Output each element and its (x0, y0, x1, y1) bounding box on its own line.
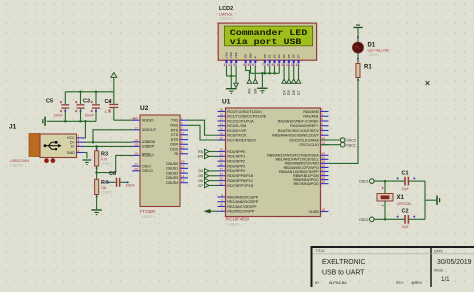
svg-text:VUSB: VUSB (309, 210, 320, 214)
wire OSC2 to C2 (374, 218, 404, 220)
svg-text:15: 15 (134, 143, 138, 147)
svg-text:RA1/AN1: RA1/AN1 (303, 115, 318, 119)
svg-text:C2: C2 (402, 209, 409, 215)
wire D- to USBDP (84, 145, 132, 147)
svg-text:<TEXT>: <TEXT> (368, 53, 380, 57)
svg-text:RD6/SPP6/P1C: RD6/SPP6/P1C (227, 179, 253, 183)
svg-text:D6: D6 (292, 54, 296, 58)
svg-text:3: 3 (78, 143, 80, 147)
svg-text:RESET: RESET (142, 154, 155, 158)
LCD LCD2 screen (224, 26, 312, 46)
wire VSS/VDD/VEE bus (226, 66, 228, 76)
svg-text:RD5/SPP5/P1B: RD5/SPP5/P1B (227, 174, 253, 178)
wire rail to ground (425, 199, 436, 201)
svg-text:EN: EN (254, 88, 258, 93)
svg-text:23: 23 (181, 160, 185, 164)
svg-text:RC1/T1OSI/CCP2/UOE: RC1/T1OSI/CCP2/UOE (227, 115, 266, 119)
ground terminal left of caps (44, 117, 46, 126)
node OSC1 terminal at U1 (321, 144, 341, 146)
svg-text:U1: U1 (222, 99, 231, 106)
svg-text:3V3OUT: 3V3OUT (142, 128, 157, 132)
svg-text:C1: C1 (402, 170, 409, 176)
svg-text:1/1: 1/1 (441, 276, 450, 283)
svg-text:RD2/SPP2: RD2/SPP2 (227, 160, 245, 164)
svg-text:RA4/T0CKI/C1OUT/RCV: RA4/T0CKI/C1OUT/RCV (278, 129, 320, 133)
wire 3V3OUT jog (93, 130, 132, 142)
svg-text:21: 21 (219, 158, 223, 162)
svg-text:23: 23 (219, 122, 223, 126)
svg-text:GND: GND (67, 151, 76, 155)
svg-text:RXD: RXD (170, 124, 178, 128)
USB trident symbol (45, 142, 60, 149)
svg-text:15: 15 (219, 108, 223, 112)
svg-text:5: 5 (181, 122, 183, 126)
wire D1 to R1 (357, 53, 359, 64)
svg-text:<TEXT>: <TEXT> (141, 215, 156, 219)
svg-text:8: 8 (221, 194, 223, 198)
svg-text:20: 20 (219, 153, 223, 157)
U1 left pins RE0-RE3 (218, 196, 226, 198)
U1 left pins RC0-RC7 (218, 111, 226, 113)
capacitor C3 (80, 92, 82, 104)
svg-text:RA0/AN0: RA0/AN0 (303, 110, 318, 114)
svg-text:U2: U2 (140, 105, 149, 112)
no-connect marker (426, 81, 430, 85)
svg-text:D1: D1 (268, 54, 272, 58)
svg-text:OSC1: OSC1 (346, 143, 356, 147)
svg-text:DATE: DATE (434, 250, 444, 254)
wire R3-R4 midpoint (96, 166, 98, 179)
svg-text:CBUS4: CBUS4 (166, 181, 178, 185)
svg-text:PAGE: PAGE (434, 268, 444, 272)
svg-text:OSC2: OSC2 (359, 218, 369, 222)
svg-text:27: 27 (219, 167, 223, 171)
svg-text:16: 16 (219, 113, 223, 117)
svg-text:RC2/CCP1/P1A: RC2/CCP1/P1A (227, 119, 254, 123)
svg-text:PIC18F4550: PIC18F4550 (226, 217, 250, 222)
U2 left pins (132, 119, 140, 121)
U1 pin VUSB (321, 211, 329, 213)
svg-text:RW: RW (248, 53, 252, 58)
svg-text:REV:: REV: (396, 281, 404, 285)
svg-text:E: E (253, 56, 257, 58)
svg-text:100nF: 100nF (85, 114, 94, 118)
svg-text:2: 2 (181, 136, 183, 140)
svg-text:RA3/AN3/VREF+: RA3/AN3/VREF+ (290, 124, 318, 128)
svg-text:<TEXT>: <TEXT> (10, 163, 23, 167)
svg-text:19: 19 (219, 148, 223, 152)
svg-text:CTS: CTS (171, 133, 179, 137)
svg-text:10: 10 (219, 203, 223, 207)
svg-text:D4: D4 (199, 169, 204, 173)
svg-text:FT232R: FT232R (140, 209, 155, 214)
U1 right pins RB0-RB7 (321, 154, 329, 156)
svg-text:C6: C6 (109, 171, 116, 177)
wire RXD to RC7 (188, 125, 218, 140)
svg-text:16: 16 (134, 138, 138, 142)
svg-text:R1: R1 (364, 64, 372, 70)
wire C2 to right rail (409, 218, 425, 220)
wire RESET down (116, 155, 132, 172)
svg-text:100nF: 100nF (54, 114, 63, 118)
svg-text:22pF: 22pF (402, 187, 409, 191)
wire J1 VCC up to rail (84, 121, 85, 138)
svg-text:24: 24 (219, 127, 223, 131)
svg-text:100nF: 100nF (126, 184, 135, 188)
resistor R4 (95, 179, 99, 194)
svg-text:USB to UART: USB to UART (322, 269, 365, 276)
svg-text:22: 22 (219, 163, 223, 167)
svg-text:RE0/AN5/CK1SPP: RE0/AN5/CK1SPP (227, 195, 258, 199)
svg-text:OSC2/CLKO/RA6: OSC2/CLKO/RA6 (289, 138, 318, 142)
svg-text:RC6/TX/CK: RC6/TX/CK (227, 134, 247, 138)
wire TXD to RC6 (188, 120, 218, 135)
U2 right pins (180, 119, 188, 121)
wire R1 to U1 RB2 (329, 78, 359, 164)
ground right of crystal (436, 196, 438, 205)
svg-text:ALPHA.BA: ALPHA.BA (329, 281, 347, 285)
svg-text:D7: D7 (296, 54, 300, 58)
svg-text:3: 3 (233, 63, 235, 67)
wire ground bottom rail (47, 120, 96, 122)
svg-text:27: 27 (134, 163, 138, 167)
svg-text:13: 13 (181, 170, 185, 174)
connector J1 shield dots (44, 158, 49, 163)
svg-text:<TEXT>: <TEXT> (101, 162, 113, 166)
svg-text:DTR: DTR (171, 138, 179, 142)
svg-text:17: 17 (219, 118, 223, 122)
svg-text:1: 1 (221, 208, 223, 212)
svg-text:1: 1 (224, 63, 226, 67)
svg-text:25: 25 (219, 132, 223, 136)
svg-text:USBDM: USBDM (142, 140, 155, 144)
wire RW + D0-D3 ground bus (250, 66, 252, 73)
svg-text:DCD: DCD (170, 147, 178, 151)
resistor R1 (356, 64, 360, 78)
svg-text:6: 6 (252, 63, 254, 67)
svg-text:D6: D6 (199, 179, 204, 183)
svg-text:RI: RI (175, 152, 179, 156)
svg-text:D3: D3 (277, 54, 281, 58)
svg-text:D1: D1 (368, 42, 376, 48)
svg-text:VEE: VEE (234, 52, 238, 58)
capacitor (second 100nF) (95, 92, 97, 104)
svg-text:3: 3 (321, 113, 323, 117)
svg-text:D4: D4 (282, 54, 286, 58)
svg-text:9: 9 (181, 141, 183, 145)
ground for LCD VSS (230, 76, 232, 88)
svg-text:USBDP: USBDP (142, 145, 155, 149)
svg-text:OSC1/CLKI: OSC1/CLKI (299, 143, 318, 147)
svg-text:D5: D5 (199, 174, 204, 178)
svg-text:5: 5 (248, 63, 250, 67)
svg-text:CBUS3: CBUS3 (166, 176, 178, 180)
node OSC2 terminal right (370, 217, 375, 222)
svg-text:4: 4 (78, 149, 80, 153)
svg-text:USBCONN: USBCONN (10, 159, 29, 163)
svg-text:TITLE: TITLE (316, 249, 326, 253)
svg-text:9: 9 (272, 63, 274, 67)
svg-text:17: 17 (134, 126, 138, 130)
svg-text:D5: D5 (287, 54, 291, 58)
svg-text:11: 11 (181, 131, 185, 135)
svg-text:<TEXT>: <TEXT> (101, 190, 113, 194)
svg-text:RD4/SPP4: RD4/SPP4 (227, 169, 245, 173)
svg-text:3: 3 (181, 127, 183, 131)
svg-text:D4: D4 (282, 90, 286, 95)
svg-text:EXELTRONIC: EXELTRONIC (322, 259, 366, 266)
wire J1 GND to ground (84, 153, 87, 159)
svg-text:19: 19 (134, 152, 138, 156)
svg-text:DSR: DSR (170, 143, 178, 147)
svg-text:D7: D7 (297, 90, 301, 95)
svg-text:26: 26 (219, 137, 223, 141)
ground below R4 (96, 195, 98, 210)
wire right rail (424, 181, 426, 219)
ground above D1 (up-facing) (353, 27, 362, 28)
svg-text:5: 5 (321, 122, 323, 126)
svg-text:RD1/SPP1: RD1/SPP1 (227, 155, 245, 159)
U1 right pins RA0-RA5, OSC (321, 111, 329, 113)
terminal EN below LCD (254, 66, 256, 79)
svg-text:RS: RS (244, 54, 248, 58)
svg-text:28: 28 (219, 172, 223, 176)
svg-text:29: 29 (219, 177, 223, 181)
svg-text:4.7u: 4.7u (105, 110, 112, 114)
resistor R3 (96, 146, 98, 150)
svg-text:7: 7 (321, 132, 323, 136)
svg-text:4: 4 (243, 63, 245, 67)
wire C1 to right rail (409, 180, 425, 182)
terminals D4-D7 below LCD (283, 66, 285, 79)
svg-text:RD0/SPP0: RD0/SPP0 (227, 150, 245, 154)
svg-text:6: 6 (321, 127, 323, 131)
crystal X1 (384, 181, 386, 193)
svg-text:RC0/T1OSO/T13CKI: RC0/T1OSO/T13CKI (227, 110, 261, 114)
svg-text:RE3/MCLR/VPP: RE3/MCLR/VPP (227, 210, 255, 214)
svg-text:10: 10 (181, 146, 185, 150)
svg-text:R3: R3 (101, 151, 108, 157)
svg-text:2: 2 (321, 108, 323, 112)
LCD LCD2 body (218, 23, 316, 60)
svg-text:CBUS1: CBUS1 (166, 167, 178, 171)
svg-text:14: 14 (181, 174, 185, 178)
svg-text:RTS: RTS (171, 128, 179, 132)
IC U1 PIC18F4550 body (226, 108, 321, 217)
svg-text:RD7/SPP7/P1D: RD7/SPP7/P1D (227, 184, 253, 188)
wire D+ to USBDM (84, 141, 132, 143)
svg-text:CRYSTAL: CRYSTAL (397, 202, 412, 206)
svg-text:D5: D5 (287, 90, 291, 95)
svg-text:40: 40 (321, 180, 325, 184)
svg-text:22pF: 22pF (402, 225, 409, 229)
svg-text:C3: C3 (83, 98, 90, 104)
capacitor C5 (64, 92, 66, 104)
svg-text:12: 12 (181, 179, 185, 183)
U1 left pins RD0-RD7 (218, 151, 226, 153)
svg-text:@REV: @REV (411, 281, 423, 285)
ground below J1 (83, 159, 92, 160)
IC U2 FT232R body (140, 115, 180, 207)
capacitor C4 (113, 92, 115, 104)
svg-text:OSC2: OSC2 (346, 139, 356, 143)
svg-text:RC5/D+/VP: RC5/D+/VP (227, 129, 247, 133)
svg-text:RE2/AN7/OESPP: RE2/AN7/OESPP (227, 205, 257, 209)
svg-text:<TEXT>: <TEXT> (219, 17, 234, 21)
svg-text:2: 2 (228, 63, 230, 67)
svg-text:RS: RS (248, 88, 252, 94)
svg-text:D0: D0 (263, 54, 267, 58)
svg-text:7: 7 (262, 63, 264, 67)
svg-text:LM016L: LM016L (219, 13, 233, 17)
svg-text:CBUS0: CBUS0 (166, 162, 178, 166)
svg-text:28: 28 (134, 167, 138, 171)
svg-text:RS: RS (198, 150, 204, 154)
svg-text:4: 4 (321, 118, 323, 122)
svg-text:OSCI: OSCI (142, 164, 151, 168)
svg-text:D7: D7 (199, 184, 204, 188)
svg-text:C4: C4 (105, 99, 113, 105)
svg-text:RA5/AN4/SS/LVDIN/C2OUT: RA5/AN4/SS/LVDIN/C2OUT (272, 134, 319, 138)
svg-text:22: 22 (181, 165, 185, 169)
svg-text:RD3/SPP3: RD3/SPP3 (227, 164, 245, 168)
svg-text:RB7/KBI3/PGD: RB7/KBI3/PGD (293, 182, 319, 186)
svg-text:RE1/AN6/CK2SPP: RE1/AN6/CK2SPP (227, 200, 258, 204)
svg-text:1: 1 (181, 117, 183, 121)
svg-text:C5: C5 (46, 98, 53, 104)
svg-text:RC7/RX/DT/SDO: RC7/RX/DT/SDO (227, 138, 256, 142)
svg-text:VDDIO: VDDIO (142, 119, 154, 123)
svg-text:20: 20 (134, 117, 138, 121)
svg-text:VDD: VDD (229, 51, 233, 58)
ground for LCD RW/D0-D3 (261, 73, 263, 87)
wire VCC top rail (65, 91, 114, 93)
node OSC2 terminal at U1 (321, 139, 341, 141)
svg-text:OSCO: OSCO (142, 169, 153, 173)
svg-text:via port USB: via port USB (230, 37, 302, 47)
svg-text:J1: J1 (9, 124, 17, 131)
svg-text:X1: X1 (397, 195, 405, 201)
svg-text:CBUS2: CBUS2 (166, 172, 178, 176)
svg-text:30/05/2019: 30/05/2019 (437, 259, 472, 266)
svg-text:D6: D6 (292, 90, 296, 95)
svg-text:9: 9 (221, 198, 223, 202)
wire C4 to U2 VDDIO (133, 117, 135, 119)
svg-text:OSC1: OSC1 (359, 180, 369, 184)
svg-text:D2: D2 (272, 54, 276, 58)
terminal RS below LCD (246, 66, 250, 79)
svg-text:30: 30 (219, 182, 223, 186)
svg-text:RA2/AN2/VREF-/CVREF: RA2/AN2/VREF-/CVREF (278, 119, 320, 123)
svg-text:18: 18 (321, 208, 325, 212)
title block frame (312, 247, 474, 288)
connector J1 body (40, 134, 77, 158)
svg-text:EN: EN (198, 155, 203, 159)
node OSC1 terminal right (370, 179, 375, 184)
MCLR terminal at U1 RE3 (204, 209, 211, 214)
svg-text:VSS: VSS (224, 52, 228, 58)
svg-text:6: 6 (181, 150, 183, 154)
power-down terminal for VEE (235, 76, 237, 83)
wire OSC1 to C1 (374, 180, 404, 182)
svg-text:R4: R4 (101, 180, 109, 186)
connector J1 orange block (29, 134, 40, 157)
svg-text:8: 8 (267, 63, 269, 67)
svg-text:LCD2: LCD2 (219, 6, 233, 12)
svg-text:<TEXT>: <TEXT> (227, 223, 242, 227)
svg-text:RC4/D-/VM: RC4/D-/VM (227, 124, 246, 128)
LED D1 (353, 42, 364, 53)
svg-text:TXD: TXD (171, 119, 179, 123)
power VCC arrow (111, 73, 117, 78)
